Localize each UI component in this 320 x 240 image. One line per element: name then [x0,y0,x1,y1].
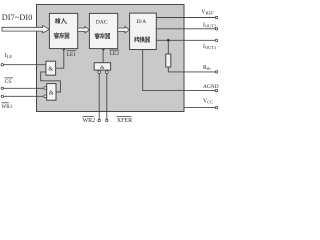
latch enable triangle on DAC register [101,49,105,52]
label WR1 (overline) [1,103,12,110]
text 输入 [55,18,66,23]
text 转换器 [134,37,149,42]
junction node on IOUT1 [167,39,170,42]
wire VCC [184,107,215,109]
chip outline (DAC0832 shaded body) [37,5,185,112]
svg-text:WR2: WR2 [83,118,96,124]
svg-text:&: & [100,65,105,71]
wire AGND from converter [143,50,216,91]
pin AGND terminal [215,89,217,91]
wire U4 output to input register LE1 [56,51,64,68]
svg-text:VCC: VCC [203,99,213,105]
label XFER (overline) [117,116,132,124]
wire U6 output to DAC register LE2 [102,51,104,63]
svg-text:CS: CS [5,79,12,85]
pin IOUT1 terminal [215,39,217,41]
text 寄存器 (DAC register) [95,33,110,38]
svg-text:AGND: AGND [203,84,219,90]
label WR2 (overline) [83,116,96,124]
DAC register U2 [89,13,117,48]
AND gate U6 (WR2/XFER) [94,63,110,70]
svg-text:LE1: LE1 [66,52,76,58]
svg-text:LE2: LE2 [109,51,119,57]
svg-text:D/A: D/A [136,19,146,25]
svg-text:DAC: DAC [96,19,108,25]
svg-text:IOUT2: IOUT2 [203,22,216,28]
resistor Rfb [166,54,171,67]
inverter bubble U5 input WR1 [44,95,47,98]
wire resistor to Rfb pin [168,67,215,72]
text 寄存器 (input register) [54,33,69,39]
wire CS to gate U5 [4,87,44,89]
svg-text:ILE: ILE [5,53,13,59]
wire IOUT1 [156,39,215,41]
pin XFER terminal [106,119,108,121]
pin VCC terminal [215,106,217,108]
inverter bubble U6 input WR2 [98,71,101,74]
wire junction to resistor Rfb [167,40,169,54]
bus arrow register to DAC register [78,26,90,33]
wire XFER up to U6 [106,74,108,120]
pin IOUT2 terminal [215,28,217,30]
pin WR2 terminal [98,119,100,121]
svg-text:XFER: XFER [117,118,132,124]
latch enable triangle on input register [62,49,66,52]
input register U1 [49,13,77,48]
label LE1 [66,51,76,58]
label LE2 [109,50,119,57]
inverter bubble U5 input CS [44,87,47,90]
svg-text:Rfb: Rfb [203,65,211,71]
wire VREF [156,17,215,19]
wire WR2 up to U6 [98,74,100,120]
wire ILE to gate U4 [4,64,46,66]
AND gate U4 (ILE gating) [46,61,56,75]
pin WR1 terminal [1,95,3,97]
bus arrow DAC register to converter [118,26,130,33]
svg-text:WR1: WR1 [1,104,12,110]
svg-text:VREF: VREF [201,10,214,16]
svg-text:IOUT1: IOUT1 [203,44,216,50]
label CS (overline) [5,78,13,85]
pin CS terminal [1,87,3,89]
svg-text:&: & [48,66,53,72]
data bus arrow into input register [2,26,49,34]
D/A converter U3 [130,13,157,49]
wire U5 output to U4 input (staircase) [41,72,61,92]
svg-text:DI7~DI0: DI7~DI0 [2,13,33,22]
pin VREF terminal [215,16,217,18]
svg-text:&: & [49,90,54,96]
wire IOUT2 [156,28,215,30]
inverter bubble U6 input XFER [105,71,108,74]
pin Rfb terminal [215,71,217,73]
AND gate U5 (CS/WR1) [47,84,56,101]
wire WR1 to gate U5 [4,95,44,97]
pin ILE terminal [1,63,3,65]
